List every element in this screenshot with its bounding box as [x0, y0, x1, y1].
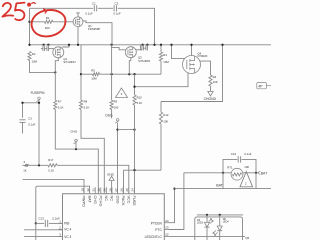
svg-text:LEDCNTLC: LEDCNTLC	[145, 235, 163, 239]
svg-text:LED3: LED3	[197, 222, 204, 225]
svg-text:29: 29	[103, 188, 107, 192]
svg-text:R17: R17	[48, 158, 54, 162]
svg-text:R10: R10	[137, 96, 143, 100]
svg-text:FUSEPIN: FUSEPIN	[31, 91, 46, 95]
svg-text:10K: 10K	[163, 119, 168, 123]
svg-text:26: 26	[120, 188, 124, 192]
svg-text:R8: R8	[84, 99, 88, 103]
svg-text:0.1uF: 0.1uF	[114, 12, 121, 16]
svg-text:5.1K: 5.1K	[58, 106, 64, 110]
svg-text:32: 32	[86, 188, 90, 192]
svg-text:10M: 10M	[163, 60, 169, 64]
svg-text:R4: R4	[213, 75, 217, 79]
svg-text:LED4: LED4	[223, 221, 230, 224]
svg-text:CHGND: CHGND	[204, 97, 217, 101]
svg-text:300: 300	[45, 26, 50, 30]
svg-text:5.1K: 5.1K	[48, 169, 54, 173]
svg-text:BAT: BAT	[261, 172, 267, 176]
svg-text:0.1uF: 0.1uF	[86, 12, 93, 16]
svg-text:28: 28	[108, 188, 112, 192]
svg-text:RT1: RT1	[227, 165, 233, 169]
svg-text:0.1uF: 0.1uF	[244, 152, 251, 156]
svg-text:23: 23	[165, 226, 169, 230]
svg-text:Si7116DN: Si7116DN	[138, 59, 150, 63]
svg-text:GND: GND	[107, 172, 115, 176]
svg-text:FDN359P: FDN359P	[88, 27, 100, 31]
svg-text:10: 10	[80, 188, 84, 192]
svg-text:DSG: DSG	[105, 114, 113, 118]
svg-text:BAT: BAT	[216, 184, 223, 188]
svg-text:NC: NC	[104, 196, 108, 202]
svg-text:27: 27	[114, 188, 118, 192]
svg-text:100: 100	[114, 106, 119, 110]
svg-text:N7002K: N7002K	[197, 54, 207, 58]
svg-text:24: 24	[131, 188, 135, 192]
svg-text:CHG: CHG	[93, 196, 97, 204]
svg-text:10K: 10K	[244, 165, 249, 169]
svg-text:1K: 1K	[23, 169, 27, 173]
svg-text:C13: C13	[38, 217, 44, 221]
svg-text:PTCEN: PTCEN	[151, 221, 163, 225]
svg-text:PCHG: PCHG	[98, 196, 102, 207]
svg-text:R12: R12	[163, 113, 169, 117]
svg-text:DSG: DSG	[115, 196, 119, 204]
svg-text:Si7116DN: Si7116DN	[63, 60, 75, 64]
svg-text:PBI: PBI	[64, 222, 69, 226]
svg-text:R1: R1	[46, 16, 50, 20]
svg-text:PACK: PACK	[121, 196, 125, 207]
svg-text:10M: 10M	[91, 76, 97, 80]
svg-text:R5: R5	[91, 69, 95, 73]
svg-text:10M: 10M	[32, 59, 38, 63]
svg-text:VCC: VCC	[126, 196, 130, 204]
svg-text:R2: R2	[32, 52, 36, 56]
svg-text:10K: 10K	[213, 80, 218, 84]
svg-text:22: 22	[165, 233, 169, 237]
svg-text:PTC: PTC	[155, 228, 162, 232]
svg-text:30: 30	[97, 188, 101, 192]
svg-text:VC 3: VC 3	[64, 235, 71, 239]
svg-text:R7: R7	[58, 99, 62, 103]
svg-text:4P: 4P	[258, 85, 263, 89]
svg-text:24: 24	[165, 219, 169, 223]
svg-text:C3: C3	[28, 116, 32, 120]
svg-text:25: 25	[125, 188, 129, 192]
svg-text:C12: C12	[231, 152, 237, 156]
svg-text:FUSE: FUSE	[132, 196, 136, 207]
svg-text:NC: NC	[110, 196, 114, 202]
svg-text:5.1K: 5.1K	[137, 101, 143, 105]
svg-text:CHG: CHG	[70, 130, 77, 134]
svg-text:5.1K: 5.1K	[84, 106, 90, 110]
svg-text:31: 31	[92, 188, 96, 192]
svg-text:R9: R9	[114, 99, 118, 103]
svg-text:C2: C2	[115, 1, 119, 5]
svg-text:VC 4: VC 4	[64, 228, 71, 232]
svg-text:PWPD: PWPD	[82, 196, 86, 208]
svg-text:0.1uF: 0.1uF	[28, 122, 35, 126]
svg-text:BAT: BAT	[87, 196, 91, 204]
svg-text:R3: R3	[163, 53, 167, 57]
svg-text:Q5: Q5	[245, 236, 249, 240]
svg-text:C1: C1	[92, 1, 96, 5]
